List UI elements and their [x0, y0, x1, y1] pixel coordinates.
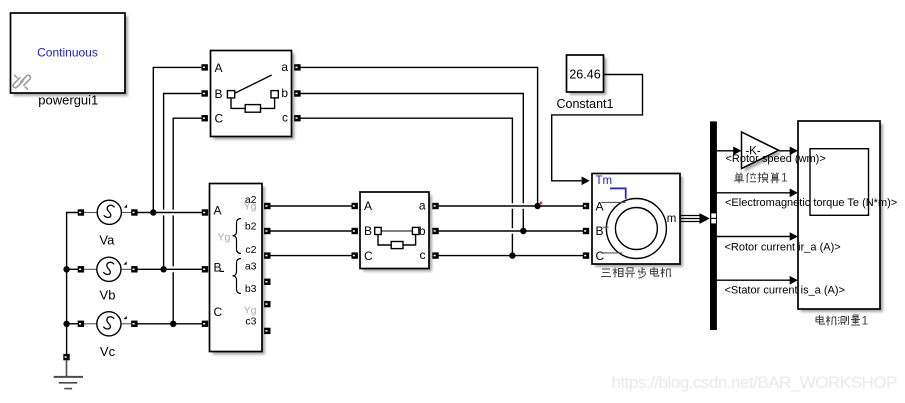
motor label chinese 三相异步电机: [601, 267, 671, 278]
breaker Brk1 input port B: [202, 90, 208, 96]
svg-text:Yg: Yg: [244, 200, 257, 212]
wire Brk1 c down to motor line c (hops at lines a,b): [301, 118, 513, 255]
svg-text:Constant1: Constant1: [557, 97, 614, 111]
AC source Va circle: [84, 200, 131, 224]
transformer output port a3: [264, 279, 270, 285]
transformer output port b2: [264, 228, 270, 234]
gain G1 shadow: [745, 135, 782, 172]
transformer output port a2: [264, 203, 270, 209]
breaker Brk2 input port B: [352, 228, 358, 234]
svg-text:a3: a3: [245, 261, 257, 273]
powergui U_powergui shadow: [14, 16, 129, 96]
svg-text:B: B: [364, 224, 372, 238]
wire phase B up to Brk1 B (hop gap at wire A): [164, 94, 202, 270]
wire phase C up to Brk1 C (hop gaps at wires A,B): [173, 118, 201, 324]
wire Constant1 to motor Tm: [552, 75, 643, 181]
wire neutral bus left: [67, 213, 78, 355]
scope block 电机测量1 shadow: [801, 124, 883, 312]
transformer output port c3: [264, 328, 270, 334]
svg-text:c2: c2: [245, 244, 256, 256]
motor M1 body: [592, 174, 680, 265]
transformer brace winding3: [233, 259, 242, 294]
wire bus to scope 4: [717, 279, 790, 281]
svg-text:<Rotor speed (wm)>: <Rotor speed (wm)>: [726, 153, 826, 165]
svg-text:Continuous: Continuous: [37, 46, 98, 60]
svg-text:b2: b2: [245, 221, 257, 233]
wire phase A up to Brk1 A: [153, 67, 201, 212]
arrow into scope wire2: [790, 189, 798, 198]
junction Brk1 c joins line c: [509, 252, 515, 258]
svg-text:Tm: Tm: [596, 175, 613, 187]
wire transformer a2 to Brk2 A: [270, 205, 352, 207]
motor output bus lines: [680, 216, 701, 222]
transformer input port A: [202, 209, 208, 215]
svg-text:b: b: [419, 224, 426, 238]
arrow bus into selector: [700, 213, 710, 224]
transformer output port b3: [264, 301, 270, 307]
gain label chinese 单位换算1: [734, 172, 780, 183]
Vc polarity arrow: [124, 316, 127, 319]
svg-text:<Rotor current ir_a (A)>: <Rotor current ir_a (A)>: [725, 241, 841, 253]
svg-text:Yg: Yg: [218, 232, 231, 244]
wire bus to gain: [717, 150, 734, 152]
Va left port: [78, 209, 84, 215]
breaker Brk2 input port C: [352, 252, 358, 258]
wire Brk2 a to motor A: [439, 205, 584, 207]
AC source Vc circle: [84, 312, 131, 336]
Va polarity arrow: [124, 204, 127, 207]
svg-text:B: B: [215, 87, 223, 101]
scope block inner screen: [810, 149, 869, 216]
scope label chinese 电机测量1: [816, 315, 860, 326]
wire transformer b2 to Brk2 B: [270, 230, 352, 232]
wire gain to scope block: [779, 150, 790, 152]
red marker near junction: [540, 202, 543, 205]
transformer brace winding2: [233, 219, 242, 254]
powergui broken-link icon: [13, 75, 30, 89]
arrow into gain: [733, 147, 741, 156]
scope block 电机测量1 body: [798, 121, 880, 309]
junction Brk1 a joins line a: [534, 203, 540, 209]
Vb right port: [131, 266, 137, 272]
breaker Brk2 output port a: [432, 203, 438, 209]
svg-text:c: c: [282, 111, 288, 125]
Vc right port: [131, 321, 137, 327]
breaker Brk1 switch icon: [227, 75, 278, 112]
svg-text:c: c: [420, 248, 426, 262]
wire Brk2 c to motor C: [439, 255, 584, 257]
svg-text:b3: b3: [245, 283, 257, 295]
transformer B dash to brace: [220, 270, 224, 272]
svg-text:https://blog.csdn.net/BAR_WORK: https://blog.csdn.net/BAR_WORKSHOP: [612, 373, 898, 392]
motor stub C: [602, 252, 622, 254]
wire bus to scope 2: [717, 192, 790, 194]
gain G1 triangle: [742, 132, 779, 169]
transformer T1 body: [210, 184, 263, 352]
svg-text:A: A: [364, 199, 372, 213]
transformer input port B: [202, 266, 208, 272]
junction Brk1 b joins line b: [520, 228, 526, 234]
svg-text:c3: c3: [245, 316, 256, 328]
wire Brk1 a down to motor line a: [301, 67, 538, 206]
svg-text:powergui1: powergui1: [38, 92, 98, 107]
Va right port: [131, 209, 137, 215]
junction neutral-Vb: [63, 266, 69, 272]
wire Vb to neutral: [67, 268, 78, 270]
wire Vb to transformer B: [137, 268, 202, 270]
breaker Brk1 output port a: [294, 64, 300, 70]
svg-text:1: 1: [781, 171, 788, 185]
ground port: [63, 354, 69, 360]
svg-text:A: A: [596, 200, 604, 214]
wire Vc to transformer C: [137, 323, 202, 325]
svg-text:a: a: [419, 198, 426, 212]
breaker Brk1 output port b: [294, 90, 300, 96]
svg-text:C: C: [215, 112, 224, 126]
svg-text:m: m: [667, 213, 677, 225]
breaker Brk2 shadow: [363, 195, 432, 272]
motor input port B: [583, 228, 589, 234]
motor blue connector: [610, 188, 626, 198]
svg-text:C: C: [214, 305, 223, 319]
motor input port C: [583, 252, 589, 258]
svg-text:Vb: Vb: [100, 287, 116, 302]
motor rotor circle: [615, 208, 657, 250]
transformer output port c2: [264, 252, 270, 258]
breaker Brk2 switch icon (closed): [375, 227, 419, 248]
svg-text:C: C: [364, 249, 373, 263]
motor stator circle: [606, 199, 666, 259]
breaker Brk2 input port A: [352, 203, 358, 209]
wire Brk1 b down to motor line b (hop at line a): [301, 94, 524, 232]
svg-text:C: C: [596, 249, 605, 263]
svg-text:A: A: [215, 61, 223, 75]
transformer T1 shadow: [213, 187, 266, 355]
breaker Brk1 output port c: [294, 115, 300, 121]
svg-text:Vc: Vc: [100, 344, 116, 359]
svg-text:a: a: [281, 60, 288, 74]
ground symbol: [54, 360, 83, 388]
arrow into scope wire4: [790, 276, 798, 285]
svg-text:<Stator current is_a (A)>: <Stator current is_a (A)>: [725, 285, 845, 297]
wire bus to scope 3: [717, 236, 790, 238]
wire Vc to neutral: [67, 323, 78, 325]
bus selector input marker: [711, 213, 716, 217]
svg-text:B: B: [596, 224, 604, 238]
motor M1 shadow: [595, 177, 683, 268]
breaker Brk2 output port c: [432, 252, 438, 258]
svg-text:Va: Va: [99, 232, 115, 247]
breaker Brk1 input port A: [202, 64, 208, 70]
breaker Brk2 body: [360, 192, 429, 269]
arrow into scope wire3: [790, 232, 798, 241]
junction phase A tap: [150, 209, 156, 215]
junction neutral-Vc: [63, 321, 69, 327]
transformer input port C: [202, 321, 208, 327]
wire transformer c2 to Brk2 C: [270, 255, 352, 257]
Vb left port: [78, 266, 84, 272]
junction phase B tap: [160, 266, 166, 272]
breaker Brk1 input port C: [202, 115, 208, 121]
svg-text:B: B: [214, 261, 222, 275]
motor input port A: [583, 203, 589, 209]
svg-text:26.46: 26.46: [569, 67, 600, 81]
junction phase C tap: [170, 321, 176, 327]
motor stub B: [603, 226, 609, 228]
arrow into scope wire1: [790, 147, 798, 156]
wire Brk2 b to motor B: [439, 230, 584, 232]
svg-text:b: b: [281, 86, 288, 100]
svg-text:A: A: [214, 204, 222, 218]
constant block Constant1 shadow: [570, 58, 607, 95]
AC source Vb circle: [84, 257, 131, 281]
breaker Brk1 shadow: [214, 54, 295, 140]
arrow into motor Tm: [582, 177, 590, 186]
wire Va to transformer A: [137, 212, 202, 214]
motor stub A: [601, 201, 625, 203]
constant block Constant1 body: [567, 55, 604, 92]
Vb polarity arrow: [124, 261, 127, 264]
svg-text:<Electromagnetic torque Te (N*: <Electromagnetic torque Te (N*m)>: [725, 197, 897, 209]
breaker Brk2 output port b: [432, 228, 438, 234]
Vc left port: [78, 321, 84, 327]
bus selector bar: [710, 121, 717, 330]
svg-text:1: 1: [862, 314, 869, 328]
breaker Brk1 body: [211, 51, 292, 137]
powergui U_powergui body: [11, 13, 126, 93]
